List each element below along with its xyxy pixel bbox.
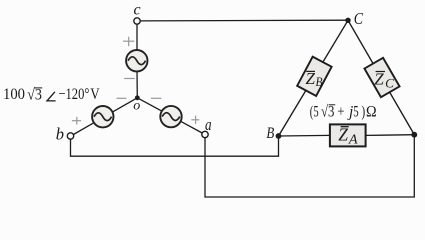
- svg-text:5: 5: [353, 103, 358, 120]
- minus sign of source phase a: [151, 97, 161, 99]
- svg-text:B: B: [316, 74, 323, 89]
- angle symbol: [47, 92, 56, 101]
- node o: [135, 95, 140, 100]
- label ZC: [374, 70, 394, 91]
- svg-text:): ): [361, 103, 365, 120]
- minus sign of source phase b: [117, 97, 127, 99]
- terminal c: [134, 18, 140, 24]
- svg-text:+: +: [337, 103, 344, 120]
- svg-text:A: A: [348, 133, 358, 148]
- node B: [276, 133, 282, 139]
- label ZA: [338, 125, 358, 148]
- right node (junction): [411, 132, 417, 138]
- impedance ZC: [364, 58, 399, 97]
- svg-text:(5: (5: [310, 103, 319, 120]
- impedance ZB: [297, 57, 331, 96]
- terminal b: [67, 133, 73, 139]
- svg-text:−120°: −120°: [58, 86, 89, 103]
- wire top source to node o: [136, 70, 138, 98]
- wire top: terminal c to node C: [140, 19, 348, 22]
- ac source phase a (right): [160, 106, 181, 127]
- minus sign of source phase c: [124, 78, 135, 80]
- svg-text:a: a: [205, 115, 212, 134]
- svg-text:Z: Z: [306, 69, 316, 88]
- svg-text:C: C: [385, 75, 394, 90]
- svg-text:B: B: [266, 125, 274, 142]
- svg-text:Ω: Ω: [366, 103, 377, 120]
- node C: [345, 18, 350, 23]
- svg-text:√3: √3: [27, 87, 42, 104]
- svg-text:o: o: [133, 99, 140, 114]
- ac source phase b (left): [92, 106, 113, 127]
- source value label 100 sqrt3 angle -120 V: [3, 86, 100, 103]
- wire ZA to right node: [366, 134, 414, 137]
- wire terminal a down, right, up to right node: [205, 135, 414, 197]
- ac source phase c (top): [126, 50, 147, 71]
- svg-text:Z: Z: [338, 125, 348, 145]
- svg-text:V: V: [90, 86, 100, 103]
- svg-text:C: C: [354, 9, 364, 28]
- svg-text:√3: √3: [321, 104, 334, 121]
- terminal a: [202, 131, 208, 137]
- plus sign of source phase b: [72, 117, 81, 125]
- wire node o to terminal a (through right source): [137, 98, 202, 133]
- wire node B to ZA: [279, 134, 331, 137]
- impedance ZA: [330, 124, 366, 146]
- wire terminal b down, right, up to node B: [71, 136, 279, 156]
- plus sign of source phase c: [123, 37, 134, 47]
- plus sign of source phase a: [191, 116, 199, 124]
- svg-text:Z: Z: [374, 70, 384, 89]
- wire node C to node B (through ZB): [279, 20, 349, 136]
- svg-text:c: c: [134, 2, 141, 19]
- wire node o to terminal b (through left source): [73, 98, 137, 135]
- wire node C to right node (through ZC): [348, 20, 414, 134]
- svg-text:b: b: [56, 124, 64, 143]
- label ZB: [306, 69, 323, 89]
- value label (5 sqrt3 + j5) Ohm: [310, 103, 377, 120]
- svg-text:100: 100: [3, 86, 25, 103]
- wire c terminal to top source: [136, 24, 138, 51]
